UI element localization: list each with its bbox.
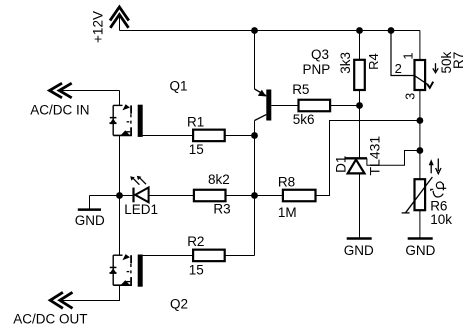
svg-text:2: 2 xyxy=(395,61,402,76)
resistor R3 xyxy=(194,190,226,202)
wire +12V rail xyxy=(120,30,420,32)
svg-text:PNP: PNP xyxy=(303,62,331,77)
wire AC/DC IN down to Q1 xyxy=(119,91,121,106)
wire R3 to center node xyxy=(226,195,255,197)
svg-text:AC/DC OUT: AC/DC OUT xyxy=(13,312,87,327)
wire D1 anode to GND xyxy=(359,173,361,238)
wire R2 to Q2 output xyxy=(143,255,194,257)
svg-text:AC/DC IN: AC/DC IN xyxy=(30,102,89,117)
wire R7 pin3 down to R6 xyxy=(419,90,421,179)
junction rail/Q3 emitter xyxy=(251,27,258,34)
R7 adjust arrow xyxy=(433,63,438,72)
+12V supply arrow xyxy=(110,7,129,31)
ground left xyxy=(78,196,101,210)
svg-text:+12V: +12V xyxy=(91,11,106,43)
wire LED1 to R3 xyxy=(149,195,194,197)
svg-text:10k: 10k xyxy=(430,212,452,227)
wire Q3 collector down through junctions to R2 corner xyxy=(254,121,256,256)
wire R5 to node xyxy=(330,105,359,107)
svg-text:Q3: Q3 xyxy=(311,47,329,62)
junction rail/R4 xyxy=(356,27,363,34)
svg-text:R3: R3 xyxy=(213,201,230,216)
svg-text:8k2: 8k2 xyxy=(208,172,230,187)
ground R6 xyxy=(408,237,433,240)
potentiometer R7 xyxy=(414,60,433,90)
junction R5/R4/D1 xyxy=(356,102,363,109)
wire rail to R7 pin2 xyxy=(391,31,415,76)
resistor R5 xyxy=(299,100,331,112)
svg-text:R5: R5 xyxy=(292,82,309,97)
svg-text:Q2: Q2 xyxy=(170,297,188,312)
wire R6 to GND xyxy=(419,210,421,238)
wire D1 cathode from node xyxy=(359,106,361,159)
junction TL431 ref/R6 xyxy=(417,147,424,154)
wire Q2 bottom to AC/DC OUT xyxy=(60,285,120,300)
ground D1 xyxy=(347,237,372,240)
resistor R4 xyxy=(354,60,365,90)
junction R1/collector xyxy=(251,132,258,139)
wire R8 up and right to R7/R6 node xyxy=(316,121,420,196)
AC/DC OUT arrow xyxy=(50,292,72,308)
svg-text:Q1: Q1 xyxy=(170,78,188,93)
junction R8/R7 pin3 xyxy=(417,117,424,124)
svg-text:TL431: TL431 xyxy=(367,136,383,176)
AC/DC IN arrow xyxy=(50,83,120,98)
junction GND/LED1 xyxy=(116,192,123,199)
svg-text:R4: R4 xyxy=(366,53,381,70)
wire rail corner down to R7 pin1 xyxy=(419,31,421,61)
wire R4 bottom to node xyxy=(359,90,361,106)
svg-text:R1: R1 xyxy=(187,115,204,130)
svg-text:R8: R8 xyxy=(278,175,295,190)
optocoupler Q1 xyxy=(110,104,143,137)
svg-text:15: 15 xyxy=(189,142,204,157)
svg-text:5k6: 5k6 xyxy=(293,112,315,127)
junction R3/R8 xyxy=(251,192,258,199)
junction rail/R7 pin2 xyxy=(388,27,395,34)
resistor R8 xyxy=(283,190,316,202)
svg-text:1: 1 xyxy=(400,52,415,59)
svg-text:3: 3 xyxy=(404,93,418,100)
transistor Q3 xyxy=(255,89,272,121)
svg-text:R2: R2 xyxy=(187,234,204,249)
wire Q1 output to R1 xyxy=(143,135,194,137)
wire Q1 bottom to Q2 top xyxy=(119,135,121,255)
svg-text:3k3: 3k3 xyxy=(338,52,353,74)
svg-text:1M: 1M xyxy=(278,205,297,220)
trimmer R6 xyxy=(402,177,433,213)
svg-text:D1: D1 xyxy=(333,156,348,173)
wire Q3 base to R5 xyxy=(271,105,298,107)
wire node to R8 xyxy=(255,195,283,197)
LED LED1 xyxy=(130,176,148,203)
svg-text:GND: GND xyxy=(405,243,435,258)
diode D1 TL431 xyxy=(345,151,420,174)
svg-text:LED1: LED1 xyxy=(124,202,158,217)
R6 thermal/adjust symbol xyxy=(431,182,446,197)
svg-text:R7: R7 xyxy=(451,52,466,69)
svg-text:15: 15 xyxy=(189,262,204,277)
resistor R2 xyxy=(193,250,225,262)
wire R4 top from rail xyxy=(359,31,361,60)
R6 adjust arrows xyxy=(429,159,441,174)
optocoupler Q2 xyxy=(110,254,143,287)
svg-text:GND: GND xyxy=(344,243,374,258)
wire center vertical from rail to Q3 emitter xyxy=(254,31,256,90)
wire R1 to center node xyxy=(225,135,255,137)
resistor R1 xyxy=(193,130,225,142)
wire LED node from GND junction to LED1 xyxy=(90,195,133,197)
svg-text:GND: GND xyxy=(75,213,105,228)
wire center vertical to Q2 via R2 xyxy=(225,255,255,257)
